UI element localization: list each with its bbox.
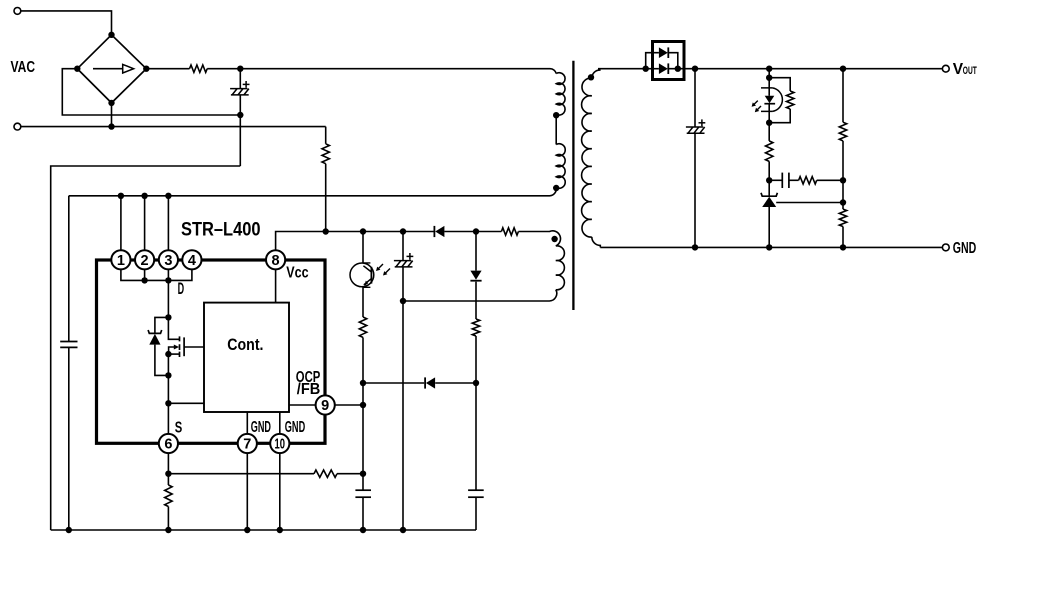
diode D1 dual rectifier package (653, 42, 685, 80)
wire Vcc to C3 (402, 232, 404, 261)
junction (141, 277, 147, 283)
wire down to C6 (475, 383, 477, 490)
svg-text:/FB: /FB (297, 381, 321, 398)
svg-text:6: 6 (164, 437, 172, 453)
capacitor C2 (line filter, left) (60, 342, 77, 348)
junction aux return / C3 (400, 298, 406, 304)
polarity dot primary mid (553, 112, 559, 118)
transistor PC1 phototransistor (350, 263, 374, 287)
wire drain to zener ZD1 cathode (155, 317, 169, 333)
diode PC1 LED (761, 78, 782, 123)
wire R2 to Vcc rail (325, 164, 327, 232)
junction Vout / opto branch (766, 66, 772, 72)
svg-text:GND: GND (285, 419, 305, 436)
resistor R6 (current sense) (165, 485, 172, 507)
wire D2 anode to R7 (444, 231, 501, 233)
wire S node to Cont block (168, 402, 204, 404)
wire Vout to C4 (694, 69, 696, 127)
wire D bus to MOSFET drain (167, 280, 169, 317)
junction ground rail / C5 (360, 527, 366, 533)
resistor R9 (766, 141, 773, 162)
junction rectifier output (675, 66, 681, 72)
IC U1 outline (97, 260, 326, 443)
junction bridge bottom (108, 100, 114, 106)
junction GND rail / C4 (692, 244, 698, 250)
resistor R11 (compensation) (799, 177, 817, 184)
junction ground rail / pin7 (244, 527, 250, 533)
input terminal (VAC line1, top) (14, 7, 21, 14)
svg-text:GND: GND (251, 419, 271, 436)
diode D4 (feedback) (425, 377, 435, 388)
wire Cont to pin9 (289, 404, 316, 406)
pin 6 S (159, 434, 178, 453)
junction Vcc / optocoupler (360, 228, 366, 234)
light arrows from PC1 LED (752, 101, 761, 113)
wire C6 to ground rail (475, 497, 477, 530)
junction source stub (165, 351, 171, 357)
svg-text:1: 1 (117, 253, 125, 269)
resistor R3 (359, 317, 366, 337)
pin 3 (159, 250, 178, 269)
junction divider / compensation (840, 177, 846, 183)
wire AC line2 to R2 startup (325, 127, 327, 144)
input terminal (VAC line2, bottom) (14, 123, 21, 130)
capacitor C6 (468, 490, 484, 497)
wire R3 to feedback node (362, 337, 364, 405)
wire R12 to GND rail (842, 227, 844, 248)
capacitor C1 plates (230, 81, 249, 95)
wire C5 to ground rail (362, 497, 364, 530)
resistor R4 (OCP) (472, 319, 479, 336)
wire feedback node to C5 (362, 405, 364, 490)
wire C1 negative lead down (239, 95, 241, 166)
resistor R2 (startup) (322, 144, 329, 164)
diode D2 (Vcc rectifier) (434, 226, 444, 237)
svg-text:4: 4 (188, 253, 196, 269)
junction ground rail / aux return (400, 527, 406, 533)
light arrows into PC1 (376, 264, 390, 276)
svg-text:7: 7 (243, 437, 251, 453)
svg-text:OUT: OUT (963, 65, 977, 77)
junction S node (165, 400, 171, 406)
junction bridge left (74, 66, 80, 72)
polarity dot aux (551, 236, 557, 242)
wire C3 to aux return (402, 267, 404, 301)
wire C4 to GND rail (694, 133, 696, 247)
junction DC bus / C1 (237, 66, 243, 72)
resistor R7 (Vcc) (501, 228, 518, 235)
op-amp/controller block Cont. (204, 303, 289, 412)
wire R7 to aux winding top (518, 231, 560, 246)
wire primary ground bottom rail (51, 529, 476, 531)
svg-text:S: S (175, 419, 183, 436)
pin 9 OCP/FB (316, 395, 335, 414)
transformer T1 aux winding (556, 246, 565, 290)
wire pin2 stub (144, 269, 146, 280)
diode D1a (upper) (659, 47, 668, 58)
wire to pin3 (167, 196, 169, 251)
junction C1 / bridge return (237, 112, 243, 118)
transformer T1 secondary winding (582, 78, 592, 237)
wire drain net to primary bottom (69, 188, 557, 196)
pin 1 (111, 250, 130, 269)
capacitor C7 (compensation) (782, 173, 789, 188)
wire bridge bottom to AC line2 (111, 103, 113, 127)
svg-text:9: 9 (321, 398, 329, 414)
svg-text:8: 8 (272, 253, 280, 269)
wire C2 lower lead to ground rail (68, 347, 70, 530)
wire to C7 (769, 179, 782, 181)
wire R6 leads (167, 474, 169, 530)
junction (165, 277, 171, 283)
wire S node to pin6 (167, 403, 169, 434)
pin 7 GND (238, 434, 257, 453)
wire divider midpoint (842, 141, 844, 209)
wire bottom terminal to startup corner (21, 126, 326, 128)
junction feedback / D4 (360, 380, 366, 386)
svg-text:10: 10 (275, 437, 286, 453)
junction drain / zener (165, 314, 171, 320)
wire phototransistor emitter to R3 (362, 287, 364, 317)
zener ZD2 (shunt regulator) (761, 193, 777, 207)
wire bridge right to R1 (146, 68, 189, 70)
wire LED node to R9 (768, 123, 770, 141)
pin 8 Vcc (266, 250, 285, 269)
junction Vout / divider (840, 66, 846, 72)
junction GND rail / zener chain (766, 244, 772, 250)
wire R4 to D4 line (475, 336, 477, 383)
junction R4 / D4 (473, 380, 479, 386)
junction pin9 net (360, 402, 366, 408)
junction bridge right (143, 66, 149, 72)
wire primary winding link (555, 114, 557, 144)
wire R11 to divider (817, 179, 843, 181)
junction LED top (766, 75, 772, 81)
junction AC line2 / bridge (108, 123, 114, 129)
junction GND rail / divider (840, 244, 846, 250)
resistor R12 (divider lower) (839, 209, 846, 226)
junction ground rail / C2 (66, 527, 72, 533)
wire pin9 to feedback node (335, 404, 363, 406)
wire Cont to pin10 (279, 412, 281, 434)
polarity dot primary bottom (553, 185, 559, 191)
svg-text:GND: GND (953, 240, 977, 257)
wire secondary top to rectifier (598, 68, 646, 70)
wire D4 anode to R4 node (435, 382, 476, 384)
wire pin7 to ground rail (246, 444, 248, 531)
svg-text:3: 3 (164, 253, 172, 269)
wire R8 bottom (769, 109, 790, 123)
junction LED bottom (766, 120, 772, 126)
junction (165, 193, 171, 199)
capacitor C4 (output) (686, 119, 705, 133)
wire to pin1 (120, 196, 122, 251)
pin 2 (135, 250, 154, 269)
wire bridge left to cap negative node (62, 69, 240, 115)
svg-text:Cont.: Cont. (227, 335, 263, 354)
wire C7 to R11 (789, 179, 799, 181)
wire aux winding bottom return (403, 290, 557, 301)
polarity dot secondary (588, 74, 594, 80)
junction Vcc / startup (323, 228, 329, 234)
wire S to R5 (168, 473, 314, 475)
wire D3 to R4 (475, 282, 477, 319)
resistor R5 (current sense filter) (314, 470, 337, 477)
junction bridge top (108, 32, 114, 38)
bridge rectifier DB1 (77, 35, 146, 103)
wire pin3 stub (167, 269, 169, 280)
junction divider / zener (840, 199, 846, 205)
wire D2 node to D3 (475, 232, 477, 271)
junction pin6 / R5 / R6 (165, 471, 171, 477)
wire R9 to zener (768, 161, 770, 196)
junction compensation branch (766, 177, 772, 183)
svg-text:2: 2 (141, 253, 149, 269)
resistor R1 (input filter) (190, 65, 208, 72)
wire top terminal to bridge top (21, 11, 112, 35)
wire Cont to pin7 (246, 412, 248, 434)
capacitor C5 (355, 490, 371, 497)
junction rectifier input (643, 66, 649, 72)
junction ground rail / R6 (165, 527, 171, 533)
wire aux return to ground rail (402, 301, 404, 530)
junction source / zener (165, 372, 171, 378)
wire Vout to LED node (768, 69, 770, 78)
pin 10 GND (270, 434, 289, 453)
wire Vout rail (668, 68, 942, 70)
pin 4 (182, 250, 201, 269)
capacitor C3 (Vcc) (394, 253, 413, 267)
wire secondary top corner (592, 69, 600, 78)
transistor Q1 (internal MOSFET) (168, 317, 204, 357)
wire DC bus to transformer primary top (240, 69, 556, 74)
svg-text:STR–L400: STR–L400 (181, 219, 261, 241)
svg-text:VAC: VAC (11, 59, 36, 76)
wire pin6 down (167, 444, 169, 474)
wire to lower diode anode (646, 68, 659, 70)
wire feedback to D4 cathode (363, 382, 424, 384)
wire upper diode cathode down (668, 53, 678, 69)
junction ground rail / pin10 (277, 527, 283, 533)
wire pin8 Vcc rail (276, 232, 434, 251)
junction Vcc / C3 (400, 228, 406, 234)
svg-text:D: D (178, 280, 185, 298)
wire drain bus pins 1-4 (121, 269, 192, 280)
output terminal VOUT (942, 65, 949, 72)
wire to upper diode anode (646, 53, 659, 69)
wire source down to S node (167, 354, 169, 403)
wire Vcc to phototransistor collector (362, 232, 364, 264)
resistor R10 (divider upper) (839, 122, 846, 141)
svg-text:Vcc: Vcc (286, 264, 308, 281)
zener ZD1 (internal) (148, 330, 162, 345)
junction (118, 193, 124, 199)
wire pin10 to ground rail (279, 444, 281, 531)
transformer T1 primary winding (556, 73, 565, 115)
wire left snubber cap column upper (68, 196, 70, 342)
wire GND rail (600, 246, 942, 248)
wire secondary bottom corner (592, 237, 601, 248)
wire ZD2 to divider midpoint (776, 202, 843, 204)
junction (141, 193, 147, 199)
wire primary ground left rail (51, 166, 241, 530)
wire R5 to feedback column (337, 473, 363, 475)
diode D3 (OCP) (470, 271, 481, 281)
capacitor C1 (bulk electrolytic) (239, 69, 241, 89)
junction D2 / OCP divider (473, 228, 479, 234)
junction Vout / C4 (692, 66, 698, 72)
transformer T1 core (572, 61, 574, 310)
wire Vout to R10 (842, 69, 844, 123)
wire ZD1 anode to source (155, 345, 169, 376)
wire pin8 to Cont (275, 270, 277, 303)
wire ZD2 anode to GND rail (768, 207, 770, 247)
output terminal GND (942, 244, 949, 251)
wire to pin2 (144, 196, 146, 251)
junction C5 / R5 (360, 471, 366, 477)
resistor R8 (LED parallel) (769, 78, 790, 91)
wire R1 to DC bus node (207, 68, 240, 70)
